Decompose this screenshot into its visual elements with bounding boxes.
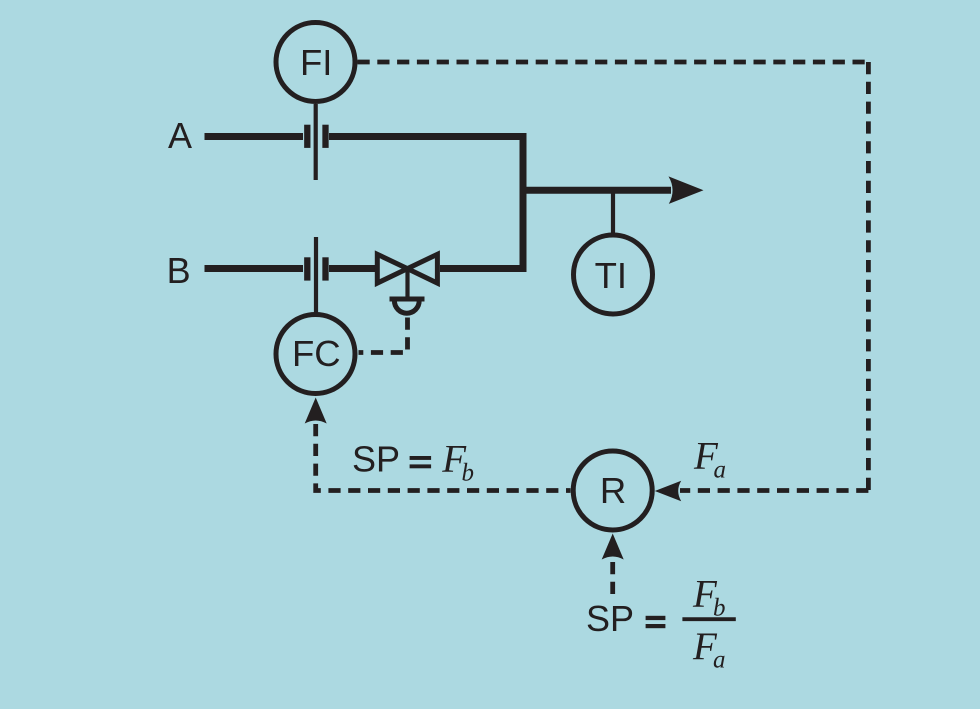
svg-text:FI: FI bbox=[300, 42, 332, 83]
svg-text:A: A bbox=[168, 115, 192, 156]
svg-text:b: b bbox=[713, 595, 726, 622]
svg-text:b: b bbox=[462, 460, 475, 487]
svg-text:R: R bbox=[600, 470, 626, 511]
svg-text:TI: TI bbox=[595, 255, 627, 296]
svg-text:a: a bbox=[713, 647, 726, 674]
svg-text:a: a bbox=[714, 457, 727, 484]
svg-text:SP: SP bbox=[586, 598, 634, 639]
svg-text:FC: FC bbox=[292, 333, 341, 374]
svg-text:SP: SP bbox=[352, 438, 400, 479]
svg-text:B: B bbox=[167, 250, 191, 291]
